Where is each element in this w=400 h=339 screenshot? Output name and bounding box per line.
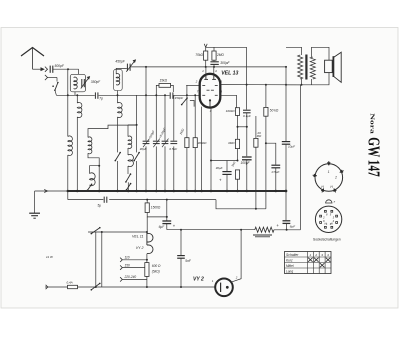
switch S4 — [134, 153, 139, 161]
oscillator coil L6 — [128, 154, 133, 166]
ground — [29, 212, 40, 214]
svg-text:Kurz: Kurz — [286, 259, 293, 263]
trimmer C7 500pF — [153, 140, 160, 142]
wire tie y127 — [238, 126, 247, 128]
switch table — [285, 252, 332, 274]
capacitor C14 100uF — [242, 156, 252, 158]
svg-text:8µF: 8µF — [290, 225, 295, 229]
wire choke to node — [274, 229, 300, 231]
wire anode top rail — [131, 66, 286, 68]
wire x136 column — [136, 95, 138, 152]
svg-text:2: 2 — [314, 253, 317, 257]
capacitor C13 30uF — [226, 161, 228, 172]
node A1 — [67, 68, 69, 70]
svg-text:220-240: 220-240 — [124, 275, 137, 279]
wire screen column x246 — [246, 47, 248, 109]
node B1 — [145, 66, 147, 68]
socket diagram VY2 base — [315, 206, 341, 232]
wire ground stub — [34, 191, 36, 213]
svg-text:300pF: 300pF — [220, 61, 230, 65]
heater filament VEL11 VY2 — [147, 233, 153, 242]
tube internal electrodes — [204, 78, 208, 80]
wire A-line — [68, 199, 104, 201]
node F2 — [246, 126, 248, 128]
wire L4 top — [116, 68, 127, 74]
choke zigzag — [255, 227, 274, 232]
resistor R12 600 — [145, 263, 149, 277]
wire S3 to bus — [127, 182, 129, 191]
switch S1a — [55, 83, 58, 91]
output transformer T1 secondary — [311, 79, 313, 85]
svg-text:600 Ω: 600 Ω — [152, 264, 161, 268]
svg-text:50 kΩ: 50 kΩ — [270, 109, 279, 113]
wire cap line x173.8 — [173, 95, 175, 140]
capacitor C17 5uF — [103, 197, 105, 203]
transformer core — [305, 55, 307, 80]
variable capacitor C2 350pF — [81, 79, 83, 87]
trimmer C6 30pF — [143, 140, 150, 142]
svg-text:100µF: 100µF — [241, 161, 251, 165]
wire C1 to tuned circuit L1 — [53, 68, 79, 70]
wire trimmer line x165 — [164, 95, 166, 140]
svg-text:Schalter: Schalter — [286, 253, 299, 257]
svg-text:VEL 13: VEL 13 — [221, 71, 238, 77]
svg-text:150: 150 — [125, 263, 131, 267]
svg-text:300kΩ: 300kΩ — [198, 141, 208, 145]
resistor R7 3M — [235, 139, 239, 148]
svg-text:5µ: 5µ — [98, 203, 102, 207]
coil L1 — [74, 77, 78, 89]
coil L8 — [90, 173, 96, 186]
wire input to switch S1a — [48, 77, 58, 79]
resistor R1 15k bridge — [156, 85, 159, 95]
resistor R4 70k — [205, 47, 207, 51]
wire L4 bottom to bus — [117, 91, 119, 96]
svg-text:1500Ω: 1500Ω — [151, 205, 161, 209]
capacitor C18 6uF — [162, 220, 171, 222]
svg-text:Sockelschaltungen: Sockelschaltungen — [313, 237, 341, 241]
speaker LS — [325, 60, 333, 72]
wire L1 bottom to bus — [74, 92, 76, 96]
wire L6 to switch — [127, 166, 129, 174]
capacitor C1 500pF — [49, 66, 51, 73]
coil L4 — [116, 74, 119, 85]
node D2 — [194, 94, 196, 96]
wire between L5 L6 — [127, 148, 129, 155]
svg-text:Lang: Lang — [286, 270, 293, 274]
node C1 — [136, 124, 138, 126]
output transformer T1 primary — [286, 47, 302, 55]
coil L3 antenna MW — [76, 95, 78, 103]
tube VEL13 envelope — [200, 74, 221, 108]
node G2 — [237, 160, 239, 162]
trimmer C8 +5-20pF — [162, 140, 169, 142]
svg-text:11 W: 11 W — [46, 255, 54, 259]
capacitor C12 0.1uF — [243, 109, 251, 111]
wire speaker return column — [299, 85, 301, 230]
wire C18 riser — [166, 200, 168, 221]
resistor R2 1M — [186, 85, 188, 137]
svg-text:70kΩ: 70kΩ — [195, 53, 203, 57]
tuned circuit can L1 — [70, 74, 85, 92]
bus junction dots — [67, 190, 70, 193]
wire trimmer line x156 — [155, 95, 157, 140]
voltage tap 220-240 — [120, 277, 122, 281]
wire to C15 — [266, 143, 276, 164]
node G1 — [210, 160, 212, 162]
svg-text:H: H — [324, 221, 326, 225]
wire S4 to bus — [136, 161, 138, 191]
wire ground lead — [35, 190, 68, 192]
tube internal grid dashes — [207, 89, 210, 91]
wire bus stub to A-line — [67, 191, 69, 200]
svg-text:100kΩ: 100kΩ — [226, 109, 236, 113]
node H1 — [265, 142, 267, 144]
resistor R6 100k — [235, 108, 239, 116]
bell symbol — [326, 200, 332, 203]
svg-text:GW 147: GW 147 — [364, 137, 383, 177]
antenna — [21, 48, 44, 57]
resistor R8 1k — [235, 170, 239, 179]
wire heater to resistor — [146, 254, 148, 263]
pickup input plug — [45, 75, 48, 80]
capacitor C10 150pF — [169, 92, 171, 98]
switch S8 mains top — [91, 228, 100, 234]
node J4 — [166, 216, 168, 218]
wire S1a to bus — [55, 90, 57, 95]
wire grid bus — [56, 94, 94, 96]
svg-text:Mittel: Mittel — [286, 264, 294, 268]
resistor R9 0.3M — [255, 116, 257, 138]
switch S3 — [126, 174, 131, 182]
socket1 pins — [328, 161, 330, 165]
socket2 pins — [325, 210, 327, 212]
svg-text:1: 1 — [328, 170, 330, 174]
ground bus — [68, 190, 286, 192]
capacitor C20 8uF — [285, 191, 287, 220]
svg-text:2: 2 — [235, 275, 238, 279]
wire heater column — [146, 217, 148, 233]
svg-text:2: 2 — [334, 175, 337, 179]
node E3 — [285, 84, 287, 86]
wire C19 column — [180, 230, 182, 255]
wire S4b to bus — [117, 161, 119, 191]
svg-text:VY 2: VY 2 — [136, 246, 144, 250]
node K6 — [180, 229, 182, 231]
mains wire top — [88, 231, 147, 233]
svg-text:2: 2 — [195, 79, 198, 83]
coil L2 antenna LW — [67, 95, 69, 136]
wire S7 step — [190, 100, 194, 106]
tube VY2 pin2 lead — [231, 230, 241, 282]
table X marks — [308, 258, 313, 262]
node D1 — [186, 94, 188, 96]
svg-text:Nora: Nora — [369, 113, 376, 134]
coil L7 feedback — [88, 125, 137, 137]
capacitor C19 5nF — [177, 255, 185, 257]
resistor R11 1500 — [146, 200, 148, 203]
node J2 — [166, 199, 168, 201]
node B3 — [213, 66, 215, 68]
svg-text:VY 2: VY 2 — [193, 277, 204, 283]
wire A to B step — [216, 200, 266, 209]
mains link verticals — [95, 232, 97, 287]
node J1 — [146, 199, 148, 201]
svg-text:30µF: 30µF — [216, 166, 223, 170]
node E2 — [265, 84, 267, 86]
svg-text:30pF: 30pF — [140, 147, 147, 151]
svg-text:2MΩ: 2MΩ — [216, 53, 224, 57]
wire cathode column — [210, 108, 212, 191]
capacitor C4 7pF — [94, 92, 96, 98]
coil L4b — [117, 95, 119, 103]
socket diagram VEL13 base — [315, 164, 343, 192]
variable capacitor C5 450pF — [126, 64, 128, 71]
node B2 — [205, 66, 207, 68]
wire cathode branch — [211, 160, 238, 162]
svg-text:+: + — [219, 178, 222, 183]
wire antenna node down — [67, 69, 69, 95]
wire C-line rectifier output — [167, 229, 255, 231]
wire grid stub — [186, 84, 200, 86]
node L2 — [286, 229, 288, 231]
wire x201 column — [201, 107, 203, 191]
svg-text:450pF: 450pF — [115, 59, 125, 63]
wire x99 to bus — [98, 166, 100, 191]
node E1 — [246, 84, 248, 86]
capacitor C9 0.5uF — [170, 140, 177, 142]
wire antenna to C1 — [33, 68, 44, 70]
wire plate to transformer — [286, 84, 312, 86]
svg-text:VEL 11: VEL 11 — [132, 235, 143, 239]
node B4 — [285, 66, 287, 68]
node K2 — [146, 286, 148, 288]
wire plate line pin5 — [220, 84, 301, 86]
capacitor C16 10uF — [282, 141, 290, 143]
svg-text:110: 110 — [125, 256, 130, 260]
node J3 — [255, 208, 257, 210]
capacitor C15 0.5uF — [271, 164, 280, 166]
wire top rail — [206, 46, 247, 48]
node E4 — [301, 84, 303, 86]
wire pin6 — [220, 95, 236, 107]
node F1 — [237, 126, 239, 128]
wire B+ column x286 — [285, 67, 287, 141]
svg-text:500pF: 500pF — [55, 64, 65, 68]
svg-text:0.5µF: 0.5µF — [169, 147, 177, 151]
tube VY2 — [215, 279, 233, 297]
voltage tap 110 — [120, 258, 122, 262]
fuse 0.4A — [68, 285, 78, 288]
wire L7 step — [88, 153, 99, 173]
capacitor C11 300pF — [210, 61, 218, 63]
switch S4b — [115, 153, 120, 161]
switch S6 — [127, 184, 131, 190]
svg-text:15kΩ: 15kΩ — [160, 78, 168, 82]
resistor R10 50k — [265, 85, 267, 108]
tube cathode dot — [209, 99, 211, 101]
svg-text:H: H — [331, 221, 333, 225]
svg-text:350pF: 350pF — [91, 80, 101, 84]
svg-text:3MΩ: 3MΩ — [228, 141, 235, 145]
node K5 — [180, 286, 182, 288]
tube pin leads top — [205, 67, 207, 77]
coil L4 can — [114, 69, 123, 90]
svg-text:10µF: 10µF — [288, 145, 295, 149]
node on bus — [67, 94, 69, 96]
resistor R5 2M — [213, 47, 215, 51]
svg-text:(5kΩ): (5kΩ) — [152, 270, 160, 274]
wire osc tie — [128, 124, 137, 126]
node L1 — [240, 229, 242, 231]
switch S7 — [182, 98, 187, 105]
switch S5 — [88, 184, 92, 190]
node K3 — [146, 231, 148, 233]
svg-text:0,4A: 0,4A — [67, 281, 73, 285]
svg-text:150pF: 150pF — [175, 96, 184, 100]
voltage tap 150 — [120, 265, 122, 269]
node C2 — [98, 165, 100, 167]
wire padder line x146 — [145, 67, 147, 141]
svg-text:7p: 7p — [99, 97, 103, 101]
node K1 — [146, 259, 148, 261]
antenna plug — [45, 67, 48, 72]
oscillator coil L5 — [127, 125, 129, 137]
mains wire bottom — [45, 286, 215, 288]
switch S9 mains bottom — [91, 283, 100, 289]
node K4 — [101, 231, 103, 233]
node bus end — [285, 190, 288, 193]
resistor R3 300k — [194, 95, 196, 137]
